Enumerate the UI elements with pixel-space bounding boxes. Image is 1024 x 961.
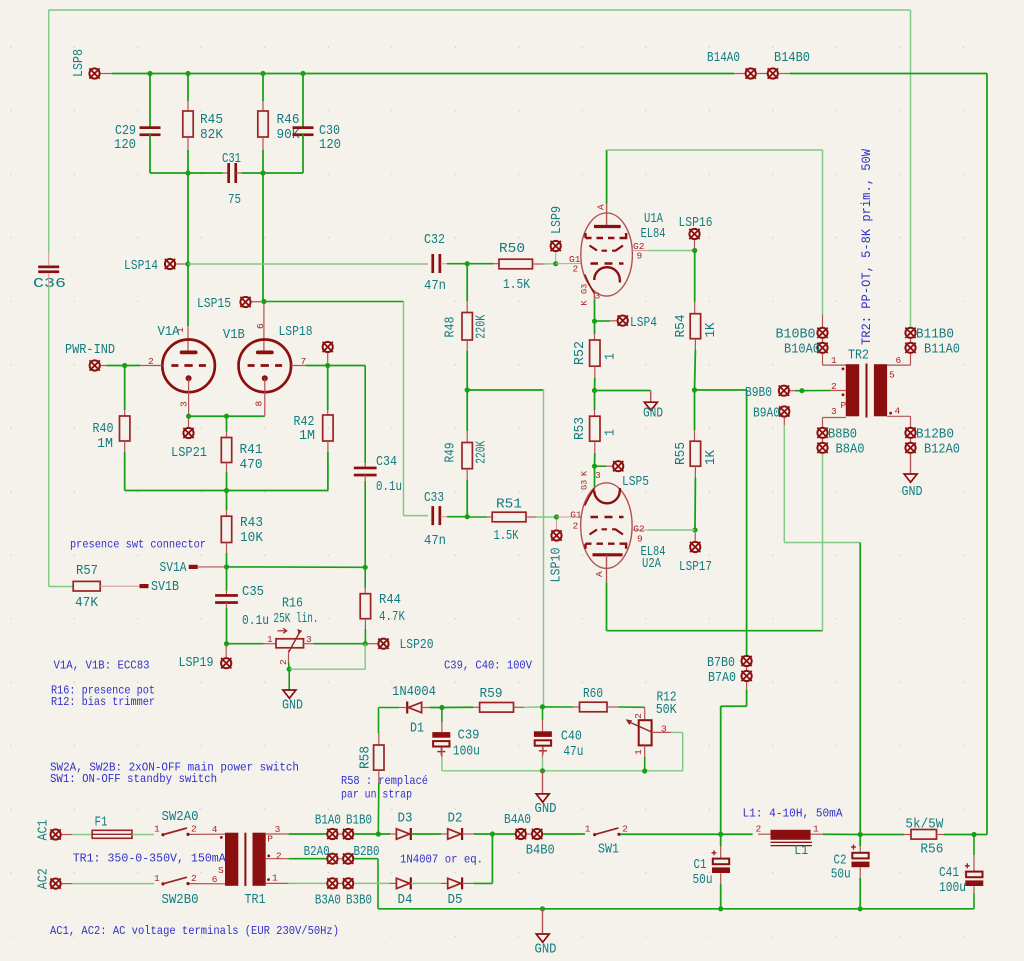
wire R56 to output node (944, 834, 974, 836)
pin 1 SW1 (585, 824, 591, 835)
wire pin B14B0 right (779, 73, 790, 75)
resistor R45 (183, 111, 193, 137)
note R58b (341, 788, 412, 802)
label B10A0 (784, 343, 820, 358)
label C29 (115, 124, 136, 139)
pad B3A0 (327, 878, 337, 888)
wire D5 to join (474, 882, 492, 884)
wire wiper down (288, 662, 291, 669)
wire D2 to join (474, 833, 492, 835)
label 1.5K R51 (494, 529, 520, 544)
label R49 (444, 443, 459, 463)
wire pin R55 top (694, 430, 696, 441)
pin name 3 V1A (179, 401, 190, 407)
wire pin R45 bottom (187, 137, 189, 150)
pin 1 L1 (813, 824, 819, 835)
pin name A U2A (594, 571, 605, 577)
svg-text:82K: 82K (200, 128, 224, 143)
svg-text:C29: C29 (115, 124, 136, 139)
pad LSP15 (240, 297, 250, 307)
svg-text:F1: F1 (95, 815, 108, 830)
wire to B2A0 (289, 858, 327, 860)
pin 3 TR2 (831, 406, 837, 417)
resistor R41 (221, 438, 231, 463)
svg-text:A: A (594, 571, 605, 577)
label 75 (228, 193, 241, 208)
pin name 1 V1A (175, 327, 186, 333)
wire pin LSP9 (555, 252, 557, 262)
pin 2 SW2B (191, 873, 197, 884)
svg-text:R58: R58 (359, 746, 374, 769)
svg-text:C35: C35 (242, 585, 264, 600)
label R40 (93, 422, 114, 437)
svg-text:R12: bias trimmer: R12: bias trimmer (51, 695, 155, 709)
wire pin R40 top (124, 410, 126, 416)
pad B9A0 (779, 406, 789, 416)
label SW2B0 (162, 893, 199, 908)
label R12 (657, 691, 677, 706)
label LSP5 (622, 475, 649, 490)
svg-text:8: 8 (254, 401, 265, 407)
svg-text:AC2: AC2 (37, 868, 52, 889)
label PWR-IND (65, 343, 115, 358)
wire into C33 (404, 515, 428, 517)
label D5 (448, 893, 463, 908)
svg-text:presence swt connector: presence swt connector (70, 538, 206, 552)
wire B3B0 to D4 (354, 882, 390, 884)
wire pin R49 bottom (466, 469, 468, 480)
svg-text:C31: C31 (222, 152, 241, 167)
wire pin R50 right (533, 263, 544, 265)
wire node to R60 (543, 706, 574, 708)
wire B8B0 to TR2 pin3 (822, 418, 824, 428)
wire R52 to node (594, 378, 596, 391)
svg-text:1: 1 (604, 353, 619, 360)
wire B10 link (822, 339, 824, 342)
label R48 (444, 317, 459, 338)
wire R43 to SV1A node (226, 553, 228, 567)
pin name K U1A (580, 300, 590, 306)
label TR1 (245, 893, 266, 908)
resistor R42 (323, 415, 333, 441)
label B7A0 (708, 671, 736, 686)
wire R54 to node (694, 350, 697, 390)
label B14B0 (774, 51, 810, 66)
pad PWR-IND (90, 360, 100, 370)
svg-text:B2A0: B2A0 (304, 845, 330, 860)
junction (799, 388, 804, 393)
label 47n (424, 279, 446, 294)
pin 2 R12 (633, 713, 644, 719)
svg-text:EL84: EL84 (641, 227, 666, 242)
wire pin L1 right (811, 833, 823, 835)
wire C32 to R50 (447, 263, 467, 265)
wire mid node to bias drop (467, 389, 543, 391)
wire drop to B7B0 (746, 390, 748, 655)
wire TR1 pin2 out (266, 858, 289, 860)
svg-text:GND: GND (535, 943, 557, 958)
wire pin LSP14 (176, 263, 186, 265)
svg-text:C40: C40 (561, 730, 582, 745)
note SW1 (50, 772, 217, 786)
pad LSP10 (551, 530, 561, 540)
svg-text:47n: 47n (424, 279, 446, 294)
wire R46 to rail (262, 150, 264, 173)
wire pin R55 bottom (694, 466, 696, 478)
svg-text:SW1: ON-OFF standby switch: SW1: ON-OFF standby switch (50, 772, 217, 786)
label LSP4 (630, 316, 657, 331)
resistor R55 (690, 441, 700, 466)
pad LSP9 (551, 241, 561, 251)
wire pin R46 top (262, 101, 264, 111)
svg-text:TR2: PP-OT, 5-8K prim., 50W: TR2: PP-OT, 5-8K prim., 50W (859, 149, 874, 345)
diode D2 (448, 828, 462, 840)
svg-text:B4B0: B4B0 (526, 844, 555, 859)
svg-text:B1B0: B1B0 (346, 813, 372, 828)
pad B12A0 (905, 443, 915, 453)
label B12A0 (924, 443, 960, 458)
svg-text:R41: R41 (240, 443, 263, 458)
wire SV1A row to R44 drop (227, 566, 366, 568)
resistor R44 (360, 594, 370, 619)
wire cathode rail (189, 415, 265, 417)
wire top feedback rail (49, 9, 911, 11)
svg-text:47u: 47u (563, 745, 583, 760)
wire pin R43 top (226, 510, 228, 516)
note 1N4007 (400, 853, 483, 867)
wire pin R12 pin1 (644, 745, 646, 757)
note TR2 type (859, 149, 874, 345)
label R44 (379, 593, 401, 608)
svg-text:2: 2 (573, 521, 579, 532)
label B8B0 (828, 428, 857, 443)
svg-text:C39: C39 (458, 729, 480, 744)
pad LSP14 (165, 259, 175, 269)
label AC1 (37, 820, 52, 841)
wire pin V1A anode (187, 326, 189, 351)
svg-text:GND: GND (282, 699, 303, 714)
label R60 (583, 687, 603, 702)
pin name P TR1 (267, 834, 273, 845)
svg-text:B14A0: B14A0 (707, 51, 740, 66)
svg-text:K: K (580, 470, 590, 476)
pin name G3 U1A (580, 284, 590, 294)
svg-text:GND: GND (643, 407, 663, 422)
wire pin B14A0 (734, 73, 745, 75)
svg-text:B12A0: B12A0 (924, 443, 960, 458)
junction (540, 906, 545, 911)
label R54 (674, 315, 689, 338)
svg-text:B9B0: B9B0 (745, 386, 772, 401)
wire R60 to R12 (618, 706, 645, 708)
ground bias (536, 794, 549, 802)
label 220K R49 (475, 440, 490, 464)
label B8A0 (836, 443, 865, 458)
wire node to R51 (467, 516, 487, 518)
label B2B0 (354, 845, 380, 860)
wire TR2 pin2 (831, 390, 846, 392)
svg-text:R50: R50 (499, 242, 525, 257)
label D3 (398, 812, 413, 827)
note R16 (51, 684, 155, 698)
svg-text:1: 1 (831, 355, 837, 366)
wire B9B0 to TR2 pin2 (795, 390, 831, 392)
wire pin6 up (910, 354, 912, 366)
fuse F1 (92, 830, 132, 838)
label 220K R48 (475, 314, 490, 339)
ground presence (283, 690, 296, 698)
wire pin C41 top (973, 855, 975, 872)
resistor R57 (73, 581, 100, 591)
wire to R46 (262, 74, 264, 102)
svg-text:B11B0: B11B0 (916, 328, 954, 343)
wire pin R40 bottom (124, 441, 126, 452)
label 100u C41 (939, 881, 966, 896)
label 1K R54 (704, 322, 719, 338)
svg-text:220K: 220K (475, 314, 490, 339)
wire pin D1 cathode (399, 707, 407, 709)
wire B3 link (338, 882, 342, 884)
svg-text:5: 5 (889, 370, 895, 381)
wire B14B0 to output column (790, 73, 987, 75)
wire pin R60 right (607, 706, 618, 708)
wire pin C40 bottom (542, 746, 544, 757)
label C40 (561, 730, 582, 745)
svg-text:P: P (267, 834, 273, 845)
svg-text:V1B: V1B (223, 328, 245, 343)
wire PWR-IND to grid (107, 365, 140, 367)
label 0.1u (242, 614, 269, 629)
wire pin R45 top (187, 101, 189, 111)
capacitor C40 (534, 731, 552, 755)
wire B1B0 to rectifier (354, 833, 378, 835)
wire B2 link (338, 858, 342, 860)
wire SV1A to node (198, 566, 227, 568)
svg-text:1: 1 (633, 749, 644, 755)
label 47n C33 (424, 534, 446, 549)
label SV1A (160, 561, 188, 576)
svg-text:G3: G3 (580, 480, 590, 490)
wire down to C34 (364, 366, 366, 464)
wire pin R48 top (466, 301, 468, 313)
wire C34 to SV1A row (364, 481, 366, 567)
wire into R56 node (974, 834, 987, 836)
wire to B1A0 (289, 833, 327, 835)
label C31 (222, 152, 241, 167)
wire pin R52 bottom (594, 366, 596, 378)
pad B3B0 (343, 878, 353, 888)
junction (224, 564, 229, 569)
wire R16 to R44 node (314, 643, 366, 645)
wire C2 node to R56 (860, 834, 904, 836)
junction (465, 261, 470, 266)
wire LSP18 node to R42 (327, 366, 329, 411)
wire R57 to SV1B (100, 585, 139, 587)
wire pin V1A grid (140, 365, 162, 367)
wire pin D2 (441, 833, 448, 835)
wire pin D1 anode (422, 707, 430, 709)
wire pin C1 top (720, 846, 722, 859)
svg-text:50u: 50u (693, 873, 713, 888)
svg-text:C2: C2 (834, 853, 847, 868)
label B3B0 (346, 894, 372, 909)
pin 5 TR2 (889, 370, 895, 381)
pad B4A0 (516, 829, 526, 839)
wire node to C40 (542, 707, 544, 720)
svg-text:47K: 47K (75, 596, 99, 611)
wire to R45 (187, 74, 189, 102)
wire pin R59 right (514, 706, 525, 708)
label 0.1u (376, 480, 402, 495)
wire pin C39 top (441, 722, 443, 732)
label GND splitter (643, 407, 663, 422)
svg-text:1: 1 (267, 634, 273, 645)
wire C32 node down to R48 (466, 264, 468, 301)
wire SW1 to choke node (621, 833, 721, 835)
svg-text:B4A0: B4A0 (504, 813, 531, 828)
wire U1A cathode down (594, 299, 596, 321)
wire SW2A to TR1 pin4 (190, 833, 226, 835)
label 100u (453, 745, 480, 760)
svg-text:TR1: 350-0-350V, 150mA: TR1: 350-0-350V, 150mA (73, 852, 227, 866)
wire to R41 (226, 416, 228, 431)
wire C35 to presence row (226, 608, 228, 644)
wire left feedback drop to C36 (48, 10, 50, 253)
label 47K (75, 596, 99, 611)
capacitor C33 (431, 506, 441, 525)
wire node to R55 (694, 390, 696, 430)
pin 2 L1 (756, 824, 762, 835)
wire R51 to U2A grid node (536, 516, 557, 518)
wire pin U2A G1 (557, 516, 582, 518)
wire pin R16 pin3 (304, 643, 314, 645)
pad B4B0 (532, 829, 542, 839)
wire GND stub (650, 391, 652, 403)
wire C40 to bias rail (542, 757, 544, 771)
svg-text:LSP16: LSP16 (679, 216, 713, 231)
wire pin C41 bottom (973, 886, 975, 893)
wire B+ feed down to filter (859, 543, 861, 835)
capacitor C35 (215, 594, 238, 604)
svg-text:R53: R53 (573, 417, 588, 440)
svg-text:3: 3 (595, 470, 601, 481)
wire pin B9A0 down (783, 418, 785, 426)
svg-text:B7B0: B7B0 (707, 656, 735, 671)
svg-text:C39, C40: 100V: C39, C40: 100V (444, 659, 533, 673)
label U2A (642, 557, 662, 572)
ground B12 (904, 474, 917, 482)
junction (718, 832, 723, 837)
svg-text:LSP4: LSP4 (630, 316, 657, 331)
wire pin R41 top (226, 432, 228, 438)
wire L1 to C2 node (823, 833, 860, 835)
pad B11A0 (905, 343, 915, 353)
svg-text:SW2B0: SW2B0 (162, 893, 199, 908)
pad B11B0 (905, 328, 915, 338)
svg-text:50K: 50K (656, 703, 678, 718)
junction (718, 906, 723, 911)
junction (224, 488, 229, 493)
resistor R51 (492, 512, 526, 522)
svg-text:C30: C30 (319, 124, 340, 139)
wire pin C34 bottom (364, 475, 366, 481)
svg-text:R52: R52 (573, 341, 588, 365)
wire to R52 (594, 321, 596, 334)
label B4B0 (526, 844, 555, 859)
svg-text:LSP20: LSP20 (400, 638, 434, 653)
wire pin C2 bottom (859, 867, 861, 878)
svg-text:GND: GND (902, 485, 923, 500)
wire pin R52 top (594, 334, 596, 340)
wire R53 to U2A cathode node (594, 453, 596, 466)
junction (592, 388, 597, 393)
wire TR2 pin1 (823, 364, 846, 366)
note presence (70, 538, 206, 552)
pin 1 R16 (267, 634, 273, 645)
wire output column down (986, 74, 988, 835)
svg-text:1: 1 (585, 824, 591, 835)
wire R12 pin3 out (671, 731, 683, 733)
net tick SV1A (189, 565, 198, 569)
svg-text:U1A: U1A (644, 212, 664, 227)
svg-text:C34: C34 (376, 455, 397, 470)
wire R58 to B+ node (377, 783, 380, 834)
pin 2 TR1 (276, 851, 282, 862)
junction (592, 319, 597, 324)
svg-text:R60: R60 (583, 687, 603, 702)
wire to V1A anode (187, 264, 189, 326)
pad B2B0 (343, 854, 353, 864)
wire pin R16 pin1 (264, 643, 277, 645)
diode D1 (407, 702, 421, 714)
svg-text:100u: 100u (939, 881, 966, 896)
label GND B12 (902, 485, 923, 500)
wire B14 link (757, 73, 767, 75)
pin name G3 U2A (580, 480, 590, 490)
pad LSP20 (378, 639, 388, 649)
junction (122, 363, 127, 368)
wire down to R40 (124, 366, 126, 411)
wire to R43 (226, 491, 228, 511)
label 50u (693, 873, 713, 888)
pin name G1 U1A (569, 254, 581, 265)
label 1M (299, 429, 315, 444)
pad LSP4 (618, 315, 628, 325)
wire C1 to ground rail (720, 884, 722, 909)
junction (186, 414, 191, 419)
svg-text:B8A0: B8A0 (836, 443, 865, 458)
wire pin R53 top (594, 410, 596, 416)
wire R49 to C33 node (466, 480, 468, 517)
pin 3 R12 (661, 723, 667, 734)
label LSP16 (679, 216, 713, 231)
svg-text:C32: C32 (424, 233, 445, 248)
label TR2 (848, 349, 869, 364)
wire pin C31 left (223, 172, 229, 174)
label R52 (573, 341, 588, 365)
pin name A U1A (596, 204, 607, 210)
wire top B+ rail (112, 73, 734, 75)
wire pin LSP8 (100, 73, 112, 75)
wire pin4 down (910, 416, 912, 427)
label R53 (573, 417, 588, 440)
pad LSP5 (613, 461, 623, 471)
pin name 6 V1B (255, 323, 266, 329)
note R58a (341, 774, 428, 788)
switch SW1 (593, 828, 621, 836)
wire V1B grid to C34 (306, 365, 365, 367)
label R46 (277, 113, 300, 128)
